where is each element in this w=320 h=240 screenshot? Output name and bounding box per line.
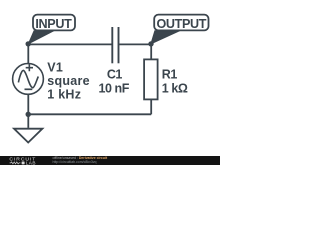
- label V1 value: [47, 61, 90, 102]
- svg-text:R1: R1: [162, 68, 178, 82]
- wire bottom horizontal: ground junction to R1: [28, 113, 151, 115]
- node A: input junction dot: [26, 41, 31, 46]
- svg-text:INPUT: INPUT: [35, 17, 72, 31]
- svg-text:square: square: [47, 74, 90, 88]
- INPUT flag box: [33, 15, 75, 31]
- wire R1 top stub: [150, 44, 152, 59]
- svg-text:LAB: LAB: [26, 160, 36, 165]
- CircuitLab logo: [0, 156, 44, 165]
- node B: output junction dot: [148, 41, 153, 46]
- svg-text:1 kΩ: 1 kΩ: [162, 82, 188, 96]
- svg-text:OUTPUT: OUTPUT: [156, 17, 206, 31]
- OUTPUT flag box: [154, 15, 208, 31]
- svg-text:V1: V1: [47, 61, 63, 75]
- label C1 value: [98, 68, 129, 96]
- wire top left: input node to capacitor: [28, 43, 111, 45]
- wire top right: capacitor to output node: [119, 43, 151, 45]
- svg-text:1 kHz: 1 kHz: [47, 88, 81, 102]
- svg-text:10 nF: 10 nF: [98, 82, 129, 96]
- voltage source V1: [13, 64, 44, 95]
- wire left vertical: input node to V1 top: [27, 44, 29, 64]
- ground symbol: [14, 129, 42, 143]
- label R1 value: [162, 68, 188, 96]
- footer watermark bar: [0, 156, 220, 165]
- INPUT flag tail: [28, 31, 54, 44]
- wire R1 bottom stub: [150, 99, 152, 114]
- node C: ground junction dot: [26, 112, 31, 117]
- resistor R1 body: [144, 59, 158, 99]
- OUTPUT flag tail: [151, 31, 180, 44]
- wire V1 bottom to ground: [27, 94, 29, 128]
- capacitor C1 plates: [112, 27, 118, 63]
- svg-text:C1: C1: [107, 68, 123, 82]
